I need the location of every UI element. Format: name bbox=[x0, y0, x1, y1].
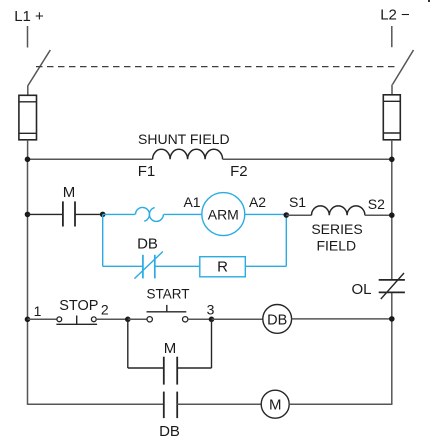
coil DB bbox=[263, 305, 292, 334]
svg-text:SERIES: SERIES bbox=[311, 221, 362, 237]
junction dot left M rung bbox=[25, 212, 31, 218]
svg-text:L2 −: L2 − bbox=[380, 7, 410, 24]
wire DB coil to right rail bbox=[292, 318, 392, 320]
wire holding branch left vertical bbox=[127, 319, 129, 368]
resistor R bbox=[200, 257, 246, 277]
right rail upper bbox=[391, 159, 393, 280]
svg-text:S1: S1 bbox=[289, 194, 306, 210]
junction dot node2 bbox=[125, 317, 131, 323]
wire holding branch left horizontal bbox=[128, 367, 164, 369]
wire M coil to right rail bbox=[289, 403, 392, 405]
wire armature loop right vertical bbox=[285, 214, 287, 266]
wire ARM to junction bbox=[245, 213, 286, 215]
wire series field to right rail bbox=[365, 214, 392, 216]
wire to M contact bbox=[28, 213, 63, 215]
junction dot S2 bbox=[389, 212, 395, 218]
fuse FU1 bbox=[19, 95, 37, 140]
wire M contact to junction bbox=[75, 213, 103, 215]
contact M holding (NO) bbox=[164, 357, 177, 385]
wire START to node3 bbox=[188, 318, 212, 320]
svg-text:L1 +: L1 + bbox=[14, 8, 44, 25]
wire DB branch left bbox=[103, 265, 143, 267]
contact DB bottom (NO) bbox=[164, 392, 177, 419]
wire armature loop left vertical bbox=[102, 214, 104, 266]
junction dot right shunt bbox=[389, 157, 395, 163]
wire node2 to START bbox=[128, 318, 147, 320]
junction dot armature loop left bbox=[100, 212, 106, 218]
svg-text:M: M bbox=[63, 184, 76, 201]
coil M motor starter bbox=[261, 390, 289, 418]
junction dot left shunt bbox=[25, 157, 31, 163]
inductor series field bbox=[312, 206, 365, 215]
inductor shunt field bbox=[153, 149, 223, 159]
svg-text:A1: A1 bbox=[183, 194, 200, 210]
wire shunt rung left bbox=[28, 158, 153, 160]
contact DB (NC) bbox=[134, 252, 163, 279]
svg-text:M: M bbox=[269, 397, 282, 414]
disconnect switch blade S-L1 bbox=[28, 50, 50, 86]
corner artifact mark bbox=[428, 0, 430, 2]
wire R to loop right bbox=[245, 265, 286, 267]
svg-text:DB: DB bbox=[267, 312, 287, 328]
svg-text:F2: F2 bbox=[230, 163, 248, 180]
wire junction to series field bbox=[286, 214, 311, 216]
fuse FU2 bbox=[383, 95, 400, 140]
svg-text:ARM: ARM bbox=[208, 207, 239, 223]
svg-text:STOP: STOP bbox=[59, 298, 98, 314]
wire node3 to DB coil bbox=[212, 318, 263, 320]
pushbutton STOP (NC) bbox=[56, 316, 97, 325]
svg-text:START: START bbox=[146, 287, 189, 302]
svg-text:3: 3 bbox=[207, 302, 215, 318]
wire blade to fuse right bbox=[391, 85, 393, 95]
left rail bbox=[27, 159, 29, 405]
wire blade to fuse left bbox=[27, 85, 29, 95]
junction dot armature loop right bbox=[284, 212, 290, 218]
svg-text:M: M bbox=[164, 340, 177, 357]
junction dot rung3 left bbox=[25, 317, 31, 323]
wire kink to ARM bbox=[164, 213, 202, 215]
wire holding branch right vertical bbox=[211, 319, 213, 368]
svg-text:R: R bbox=[217, 259, 228, 276]
armature kink symbol bbox=[136, 207, 164, 221]
junction dot node3 bbox=[209, 317, 215, 323]
svg-text:FIELD: FIELD bbox=[316, 238, 356, 254]
wire shunt rung right bbox=[223, 158, 392, 160]
wire holding branch right horizontal bbox=[177, 367, 211, 369]
svg-text:1: 1 bbox=[34, 303, 42, 319]
wire rail to STOP bbox=[28, 318, 58, 320]
overload OL contact bbox=[379, 273, 405, 299]
svg-text:SHUNT FIELD: SHUNT FIELD bbox=[138, 131, 230, 147]
wire cyan to interlock bbox=[103, 213, 136, 215]
disconnect switch blade S-L2 bbox=[393, 50, 414, 85]
svg-text:F1: F1 bbox=[138, 163, 156, 180]
wire bottom rung left bbox=[28, 403, 164, 405]
wire DB contact to M coil bbox=[177, 403, 261, 405]
svg-text:S2: S2 bbox=[368, 196, 385, 212]
wire fuse1 to left rail bbox=[27, 140, 29, 160]
wire DB contact to R bbox=[155, 265, 200, 267]
pushbutton START (NO) bbox=[147, 305, 188, 322]
wire STOP to node2 bbox=[96, 318, 128, 320]
right rail lower bbox=[391, 292, 393, 405]
wire L1 lead bbox=[27, 26, 29, 48]
svg-text:2: 2 bbox=[101, 302, 109, 318]
wire fuse2 to right rail bbox=[391, 140, 393, 160]
junction dot rung3 right bbox=[389, 316, 395, 322]
svg-text:DB: DB bbox=[137, 236, 158, 253]
armature ARM bbox=[202, 193, 245, 236]
wire L2 lead bbox=[391, 26, 393, 47]
svg-text:A2: A2 bbox=[249, 194, 266, 210]
contact M (NO) bbox=[63, 201, 75, 226]
svg-text:OL: OL bbox=[351, 281, 371, 298]
svg-text:DB: DB bbox=[159, 423, 180, 439]
mechanical link dashed line bbox=[36, 66, 397, 68]
